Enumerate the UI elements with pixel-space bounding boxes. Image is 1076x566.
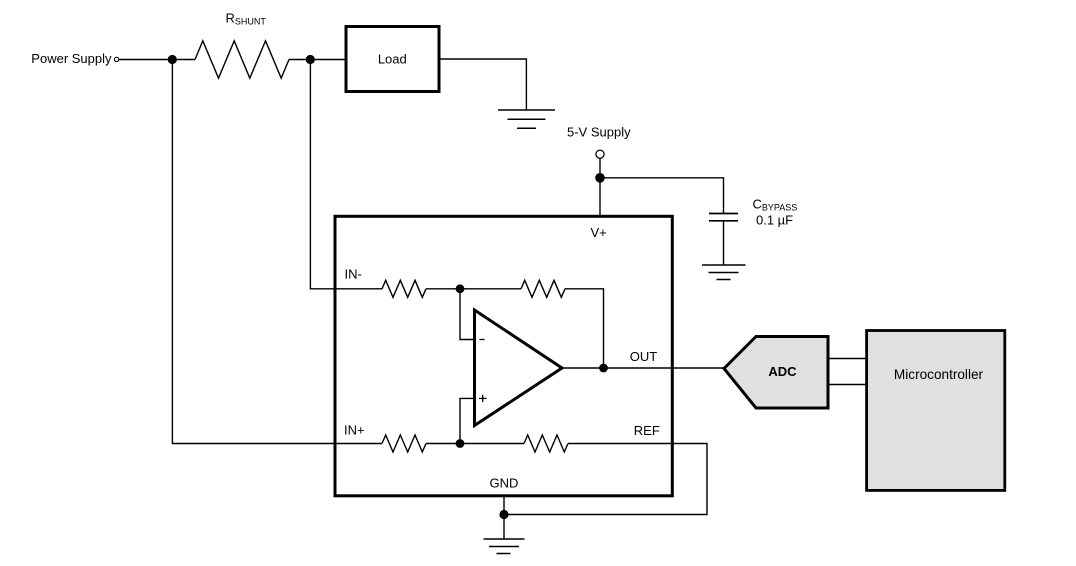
svg-text:IN+: IN+	[344, 422, 365, 437]
svg-text:REF: REF	[634, 423, 660, 438]
svg-text:CBYPASS: CBYPASS	[753, 196, 798, 212]
svg-text:IN-: IN-	[345, 266, 362, 281]
svg-text:GND: GND	[490, 475, 519, 490]
svg-text:Microcontroller: Microcontroller	[894, 367, 984, 382]
svg-text:Power Supply: Power Supply	[31, 51, 112, 66]
svg-text:0.1 µF: 0.1 µF	[756, 213, 793, 228]
svg-text:Load: Load	[378, 51, 407, 66]
svg-text:RSHUNT: RSHUNT	[226, 11, 267, 27]
svg-text:OUT: OUT	[630, 349, 658, 364]
svg-text:ADC: ADC	[768, 364, 797, 379]
svg-text:V+: V+	[591, 225, 607, 240]
svg-text:5-V Supply: 5-V Supply	[567, 124, 631, 139]
